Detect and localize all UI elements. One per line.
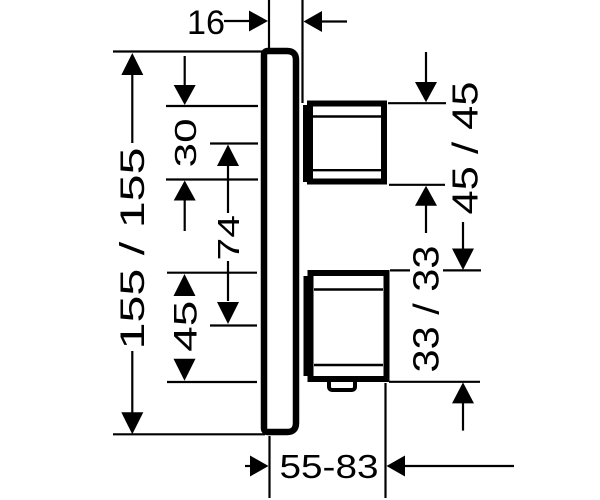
svg-text:45 / 45: 45 / 45 [445,82,486,215]
svg-text:30: 30 [168,118,203,167]
svg-text:74: 74 [211,215,246,261]
svg-text:55-83: 55-83 [280,448,379,485]
svg-text:33 / 33: 33 / 33 [406,246,447,373]
svg-text:16: 16 [187,4,225,42]
svg-text:45: 45 [168,301,204,352]
svg-text:155 / 155: 155 / 155 [114,148,152,350]
